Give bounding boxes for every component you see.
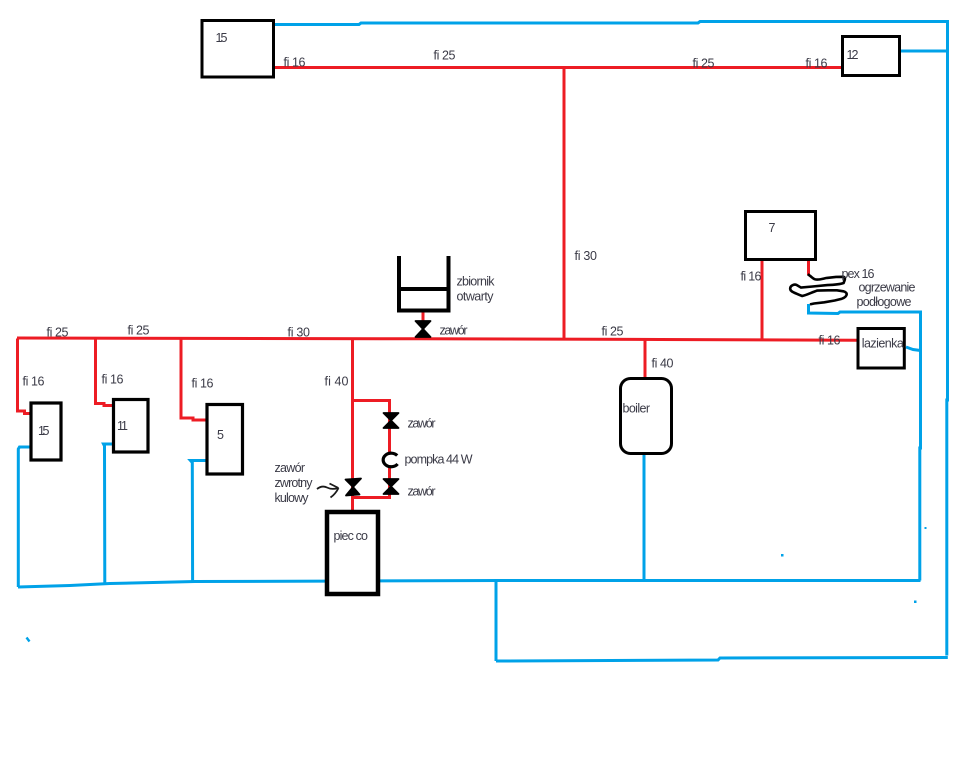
- svg-text:fi 16: fi 16: [819, 334, 841, 348]
- svg-text:5: 5: [217, 428, 224, 442]
- floor heating coil (pex 16 squiggle): [790, 274, 847, 304]
- wire red drop to radiator 5: [181, 339, 207, 421]
- wire red drop to radiator 15 lower-left: [18, 339, 31, 414]
- svg-text:fi 40: fi 40: [652, 357, 674, 371]
- svg-text:fi 25: fi 25: [693, 57, 715, 71]
- svg-text:fi 40: fi 40: [325, 375, 349, 389]
- svg-text:zawór: zawór: [408, 417, 436, 431]
- wire blue bottom-most horizontal run: [496, 658, 948, 662]
- valve under open tank (zawor): [416, 321, 431, 337]
- svg-text:12: 12: [847, 48, 859, 62]
- blue speck dot far right: [925, 527, 927, 529]
- wire red drop to radiator 11: [96, 339, 114, 406]
- valve lower on bypass (zawor): [384, 479, 399, 494]
- wire blue main return horizontal: [18, 581, 921, 588]
- svg-text:piec co: piec co: [334, 529, 369, 543]
- svg-text:15: 15: [38, 424, 50, 438]
- blue tick mark bottom-left: [27, 638, 30, 642]
- blue speck dot near boiler return: [781, 554, 784, 557]
- svg-text:fi 16: fi 16: [806, 57, 828, 71]
- wire red drop from radiator 7: [761, 261, 764, 339]
- wire blue return from boiler: [643, 455, 646, 581]
- boiler: [621, 379, 672, 454]
- svg-text:zwrotny: zwrotny: [275, 476, 314, 490]
- wire blue connector from lazienka: [906, 347, 921, 351]
- svg-text:7: 7: [769, 221, 776, 235]
- open tank water level line: [397, 287, 451, 291]
- wire blue return from radiator 5: [191, 461, 207, 583]
- radiator 7: [746, 212, 816, 260]
- piec co (furnace): [327, 512, 378, 594]
- svg-text:zawór: zawór: [275, 461, 306, 475]
- hand-drawn arrow to check valve: [317, 487, 338, 489]
- wire red main supply horizontal: [17, 338, 857, 340]
- wire red pump bypass branch: [353, 401, 390, 498]
- svg-text:fi 25: fi 25: [602, 325, 624, 339]
- svg-text:fi 25: fi 25: [128, 324, 150, 338]
- wire blue stub from radiator 12: [901, 50, 948, 53]
- wire blue return from radiator 15 (lower-left): [18, 447, 30, 587]
- svg-text:pex 16: pex 16: [842, 267, 875, 281]
- wire blue return from floor heating coil: [809, 304, 921, 581]
- svg-text:fi 16: fi 16: [741, 270, 762, 284]
- wire red top supply radiator 15 to radiator 12: [275, 66, 841, 69]
- svg-text:otwarty: otwarty: [457, 290, 495, 304]
- svg-text:pompka 44 W: pompka 44 W: [405, 453, 473, 467]
- wire red stub from open tank: [422, 312, 425, 339]
- svg-text:15: 15: [216, 31, 228, 45]
- radiator 11: [114, 400, 149, 453]
- blue speck dot right side: [914, 601, 917, 604]
- svg-text:fi 25: fi 25: [434, 49, 456, 63]
- svg-text:boiler: boiler: [623, 402, 651, 416]
- wire red fi 40 drop to piec co: [351, 339, 354, 513]
- svg-text:ogrzewanie: ogrzewanie: [859, 281, 916, 295]
- svg-text:fi 16: fi 16: [23, 375, 45, 389]
- svg-text:fi 16: fi 16: [102, 373, 124, 387]
- radiator 15 (lower-left): [31, 403, 61, 460]
- radiator 5: [207, 405, 243, 475]
- svg-text:podłogowe: podłogowe: [857, 295, 912, 309]
- svg-text:zbiornik: zbiornik: [457, 275, 496, 289]
- svg-text:zawór: zawór: [408, 485, 436, 499]
- wire red stub from radiator 7 to floor coil: [807, 261, 810, 275]
- svg-text:fi 25: fi 25: [47, 326, 69, 340]
- wire red stub to boiler: [644, 339, 647, 378]
- lazienka box: [858, 329, 904, 369]
- open tank (zbiornik otwarty): [399, 256, 449, 311]
- svg-text:fi 30: fi 30: [575, 249, 598, 263]
- wire red riser fi 30: [563, 68, 566, 339]
- svg-text:zawór: zawór: [440, 324, 468, 338]
- wire blue junction drop to bottom run: [495, 581, 498, 662]
- wire blue top return from radiator 15 to right riser: [275, 22, 948, 656]
- wire blue return from radiator 11: [104, 444, 113, 585]
- svg-text:11: 11: [117, 419, 128, 433]
- svg-text:fi 30: fi 30: [288, 326, 311, 340]
- radiator 15 (top-left): [202, 21, 274, 78]
- radiator 12 (top-right): [843, 37, 900, 76]
- svg-text:fi 16: fi 16: [192, 377, 214, 391]
- valve upper on bypass (zawor): [384, 413, 399, 428]
- pump (pompka 44 W): [383, 453, 397, 467]
- svg-text:kulowy: kulowy: [275, 491, 310, 505]
- svg-text:fi 16: fi 16: [284, 56, 306, 70]
- svg-text:lazienka: lazienka: [862, 337, 904, 351]
- check valve zawor zwrotny kulowy: [346, 479, 362, 496]
